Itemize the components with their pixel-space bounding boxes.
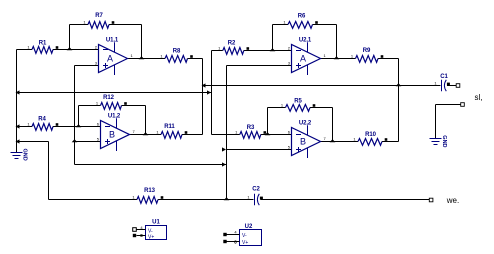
junction: R7 return on U1.1 output — [139, 56, 145, 59]
svg-text:V+: V+ — [148, 235, 154, 241]
ground GND right — [430, 135, 448, 147]
resistor R6 — [283, 14, 317, 29]
junction: v1 / summing bus — [202, 83, 206, 87]
svg-text:C1: C1 — [440, 74, 448, 80]
wire: R1 to U1.1 inverting input — [53, 49, 99, 51]
wire: input bus to R2/R3 — [17, 92, 212, 94]
svg-text:R4: R4 — [38, 117, 46, 123]
wire: R8 right lead — [188, 58, 203, 60]
wire: v1 R8/R11 join vertical — [202, 59, 204, 135]
wire: R12 feedback right vertical — [145, 106, 147, 135]
svg-text:V-: V- — [148, 228, 153, 234]
junction: input node / ground spur — [16, 139, 20, 143]
resistor R12 — [96, 95, 127, 109]
svg-text:C2: C2 — [252, 187, 260, 193]
wire: R9/R10 join vertical — [398, 59, 400, 142]
svg-text:R2: R2 — [228, 41, 236, 47]
wire: C2 to we terminal — [261, 199, 430, 201]
op-amp U1.2 — [97, 114, 136, 152]
wire: R11 right lead — [182, 134, 203, 136]
capacitor C2 — [247, 187, 263, 206]
junction: R5 return on U2.2 output — [330, 139, 336, 142]
wire: U2.2 output to R10 — [321, 141, 359, 143]
svg-text:R10: R10 — [365, 132, 376, 138]
wire: R13 left lead — [49, 199, 138, 201]
capacitor C1 — [434, 74, 450, 91]
wire: R4 left lead — [17, 126, 33, 128]
svg-text:R1: R1 — [39, 41, 47, 47]
svg-text:R9: R9 — [363, 48, 371, 54]
svg-text:R6: R6 — [298, 14, 306, 20]
wire: U1.1 non-inverting lead — [75, 65, 99, 67]
ground GND left — [11, 149, 28, 161]
wire: R7 feedback left vertical — [69, 25, 71, 50]
resistor R9 — [351, 48, 383, 62]
op-amp U2.2 — [288, 121, 327, 159]
junction: U1.2 non-inverting tap — [72, 139, 78, 142]
svg-text:R12: R12 — [103, 95, 114, 101]
wire: R2 to U2.1 inverting input — [244, 50, 292, 52]
junction: R9/R10 join on summing bus — [396, 83, 402, 86]
wire: summing bus to C1 — [203, 85, 441, 87]
wire: R6 right lead — [313, 24, 337, 26]
wire: non-inverting bus to v3 — [75, 164, 227, 166]
wire: R6 left lead — [273, 24, 289, 26]
wire: R3 left lead — [212, 134, 240, 136]
wire: v2 vertical feeding R2/R3 — [211, 51, 213, 135]
svg-text:R7: R7 — [95, 13, 103, 19]
wire: v3 non-inverting/we vertical — [226, 66, 228, 200]
svg-text:U1: U1 — [152, 220, 160, 226]
wire: input node vertical — [16, 50, 18, 153]
wire: R13 to C2 — [158, 199, 254, 201]
resistor R13 — [132, 188, 163, 203]
svg-text:A: A — [107, 54, 113, 64]
wire: U1.2 output to R11 — [130, 134, 162, 136]
junction: R12 tap on R4 line — [76, 124, 82, 127]
junction: R7 tap on R1 line — [67, 47, 73, 50]
svg-text:V+: V+ — [242, 240, 248, 246]
junction: v3 / U2.2 non-inverting — [222, 147, 226, 151]
resistor R10 — [353, 132, 387, 145]
wire: R9 right lead — [378, 58, 399, 60]
terminal: we input pin — [429, 198, 433, 202]
svg-text:B: B — [109, 130, 115, 140]
resistor R8 — [160, 49, 192, 63]
power box U2 — [223, 224, 261, 246]
svg-text:GND: GND — [441, 135, 447, 147]
svg-text:R8: R8 — [173, 49, 181, 55]
svg-text:U2,1: U2,1 — [299, 38, 312, 44]
svg-text:R13: R13 — [144, 188, 155, 194]
resistor R3 — [235, 125, 266, 138]
svg-text:U1,1: U1,1 — [106, 38, 119, 44]
svg-text:R3: R3 — [247, 125, 255, 131]
wire: R3 to U2.2 inverting input — [261, 134, 292, 136]
wire: R10 right lead — [382, 141, 399, 143]
svg-text:R11: R11 — [164, 124, 175, 130]
wire: R12 left lead — [79, 105, 101, 107]
wire: R5 left lead — [268, 107, 286, 109]
wire: R7 right lead — [109, 24, 142, 26]
svg-text:GND: GND — [22, 149, 28, 161]
wire: R7 feedback right vertical — [141, 25, 143, 59]
op-amp U1.1 — [95, 38, 134, 76]
wire: sl ground vertical — [435, 105, 437, 139]
wire: left ground stub — [16, 142, 18, 153]
svg-text:U2,2: U2,2 — [299, 121, 312, 127]
resistor R11 — [156, 124, 187, 138]
svg-text:we.: we. — [446, 196, 459, 205]
wire: R5 feedback left vertical — [267, 108, 269, 135]
junction: input node / R4 — [16, 124, 20, 128]
wire: U1.1 output to R8 — [128, 58, 166, 60]
wire: sl ground lead — [436, 104, 461, 106]
wire: R5 right lead — [310, 107, 333, 109]
junction: v3 / non-inverting bus — [222, 162, 226, 166]
svg-text:B: B — [300, 137, 306, 147]
wire: U2.1 output to R9 — [320, 58, 356, 60]
resistor R5 — [281, 99, 315, 112]
wire: R12 right lead — [122, 105, 146, 107]
wire: U2.1 non-inverting lead — [227, 65, 292, 67]
junction: R6 return on U2.1 output — [334, 56, 340, 59]
junction: v3 on we line — [224, 197, 230, 200]
junction: R5 tap on R3 line — [265, 132, 271, 135]
op-amp U2.1 — [288, 38, 327, 76]
wire: non-inverting chain vertical — [74, 66, 76, 165]
junction: R12 return on R11 line — [143, 132, 149, 135]
resistor R4 — [27, 117, 58, 131]
svg-text:sl,: sl, — [475, 93, 483, 102]
terminal: sl output pin — [456, 84, 460, 88]
svg-text:A: A — [300, 54, 306, 64]
svg-text:V-: V- — [242, 233, 247, 239]
resistor R1 — [27, 41, 58, 54]
junction: input node / bus — [16, 90, 20, 94]
wire: R12 feedback left vertical — [78, 106, 80, 127]
resistor R7 — [83, 13, 114, 28]
power box U1 — [133, 220, 167, 241]
wire: R1 left lead — [17, 49, 33, 51]
junction: R6 tap on R2 line — [270, 48, 276, 51]
wire: R7 left lead — [70, 24, 89, 26]
terminal: sl ground pin — [461, 103, 465, 107]
svg-text:R5: R5 — [294, 99, 302, 105]
wire: U1.2 non-inverting lead — [75, 141, 101, 143]
svg-text:U1,2: U1,2 — [108, 114, 121, 120]
wire: R6 feedback left vertical — [272, 25, 274, 51]
wire: R6 feedback right vertical — [336, 25, 338, 59]
wire: R5 feedback right vertical — [332, 108, 334, 142]
wire: ground spur horizontal — [17, 141, 49, 143]
junction: bus end at v2 — [207, 90, 211, 94]
wire: R4 to U1.2 inverting input — [53, 126, 101, 128]
wire: C1 to sl terminal — [447, 85, 456, 87]
wire: R2 left lead — [212, 50, 223, 52]
wire: U2.2 non-inverting lead — [227, 149, 292, 151]
svg-text:U2: U2 — [245, 224, 253, 230]
resistor R2 — [218, 41, 249, 55]
wire: ground spur vertical — [48, 142, 50, 200]
